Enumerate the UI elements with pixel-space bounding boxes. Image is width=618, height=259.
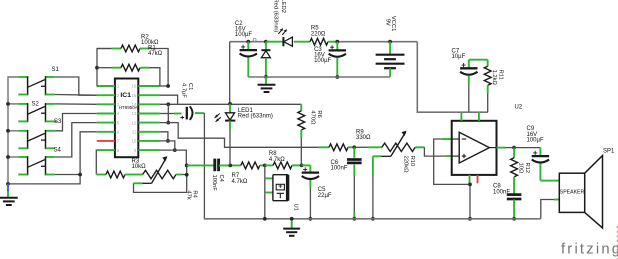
svg-text:100nF: 100nF xyxy=(331,166,348,172)
svg-text:10: 10 xyxy=(132,139,137,144)
svg-text:U2: U2 xyxy=(515,105,523,111)
junction R1-R2 left xyxy=(95,66,99,70)
svg-text:47kΩ: 47kΩ xyxy=(148,51,163,57)
svg-text:R4: R4 xyxy=(192,190,198,198)
resistor R1 xyxy=(97,67,112,69)
junction pin12 xyxy=(166,121,170,125)
capacitor C5 xyxy=(302,171,319,173)
resistor R6 xyxy=(300,104,302,111)
junction rail-S4 xyxy=(6,155,10,159)
svg-text:S2: S2 xyxy=(32,101,40,107)
junction S4bottom-pin6 xyxy=(78,173,82,177)
wire pot wiper loop xyxy=(134,176,187,193)
junction pin9 xyxy=(173,148,177,152)
junction LED1 anode xyxy=(228,102,232,106)
svg-text:4.7kΩ: 4.7kΩ xyxy=(269,157,285,163)
wire pin9 to pot junction xyxy=(160,150,186,165)
svg-text:470Ω: 470Ω xyxy=(310,110,316,125)
junction R10 rail xyxy=(371,217,375,221)
junction rail-ground xyxy=(6,182,10,186)
junction pin14 xyxy=(166,102,170,106)
wire S2 to IC pin3 xyxy=(55,103,97,105)
wire left ground rail xyxy=(8,77,18,184)
resistor R12 xyxy=(513,148,515,158)
junction R9-C6 xyxy=(352,145,356,149)
junction C5 rail xyxy=(309,217,313,221)
wire S2 bottom stub xyxy=(55,120,57,122)
wire S3 to IC pin4 xyxy=(55,114,97,131)
capacitor C2 xyxy=(247,42,249,50)
capacitor C8 xyxy=(513,182,515,194)
wire pin13 to C1 xyxy=(160,113,174,115)
resistor R8 xyxy=(265,164,273,166)
resistor R3 xyxy=(96,174,106,176)
label anchor circle xyxy=(253,38,256,41)
wire pin11 dogleg xyxy=(160,132,168,141)
junction LED1 cathode xyxy=(228,164,232,168)
ground GND1 lead xyxy=(7,184,9,192)
ground GND2 xyxy=(265,77,267,85)
svg-text:12: 12 xyxy=(132,120,137,125)
wire C7-R11 top xyxy=(469,59,488,61)
wire to C4 xyxy=(187,164,215,166)
junction diode gnd xyxy=(264,75,268,79)
svg-text:100µF: 100µF xyxy=(527,137,544,143)
LED D LED2 xyxy=(266,41,284,43)
svg-text:10kΩ: 10kΩ xyxy=(132,164,147,170)
wire pot right to junctions xyxy=(183,174,187,176)
switch S2 xyxy=(18,103,27,105)
op-amp U2 power stubs xyxy=(460,113,462,121)
svg-text:1.2kΩ: 1.2kΩ xyxy=(491,70,497,86)
wire S1 to IC pin2 xyxy=(55,77,97,95)
capacitor C7 xyxy=(468,60,470,69)
wire S4 to IC pin5 xyxy=(55,123,97,157)
svg-text:S1: S1 xyxy=(52,67,60,73)
resistor R9 xyxy=(319,146,329,148)
svg-text:S4: S4 xyxy=(54,148,62,154)
switch S4 xyxy=(18,156,27,158)
wire pin8 down to R3 row xyxy=(95,150,98,174)
junction diode top xyxy=(264,40,268,44)
svg-text:220kΩ: 220kΩ xyxy=(403,156,409,174)
wire out to C9 xyxy=(514,147,540,149)
svg-text:U1: U1 xyxy=(293,204,299,211)
resistor R2 xyxy=(97,48,112,50)
wire C5 to bottom rail xyxy=(309,180,311,189)
ground GND1 xyxy=(0,197,18,199)
microphone U1 body xyxy=(273,175,288,201)
junction C3 bottom xyxy=(335,75,339,79)
junction R8-R6-C5 xyxy=(300,164,304,168)
svg-text:C4: C4 xyxy=(218,175,224,183)
wire to op-amp in+ xyxy=(424,147,444,156)
potentiometer R4 pot xyxy=(132,174,143,176)
junction rail-S3 xyxy=(6,129,10,133)
junction mic rail xyxy=(263,217,267,221)
wire R10 wiper to rail xyxy=(372,156,374,175)
speaker SP1 xyxy=(559,173,584,212)
wire pin6 to ground row xyxy=(8,132,97,184)
wire pin14 row to R6 xyxy=(160,103,301,105)
wire R2 right to pin16 xyxy=(150,49,169,87)
diode D1 xyxy=(265,42,267,51)
svg-text:IC1: IC1 xyxy=(120,92,131,99)
svg-text:R10: R10 xyxy=(409,156,415,167)
wire VCC corner down to LED1 xyxy=(229,42,231,104)
wire C1 right down to bottom rail xyxy=(195,112,205,114)
resistor R11 xyxy=(487,60,489,67)
junction battery top xyxy=(388,40,392,44)
LED D LED1 xyxy=(229,104,231,113)
wire pin16 row xyxy=(160,85,168,87)
wire R2 left to pin1 xyxy=(97,49,111,87)
wire R6/R8 node to C5 xyxy=(302,164,311,166)
svg-text:SP1: SP1 xyxy=(603,148,615,154)
capacitor C6 xyxy=(353,147,355,158)
svg-text:4.7µF: 4.7µF xyxy=(181,83,187,98)
wire pin15 dogleg xyxy=(160,95,178,104)
junction op-amp gnd rail xyxy=(468,217,472,221)
wire R1 right to pin16 xyxy=(150,68,160,86)
junction C8 rail xyxy=(512,217,516,221)
wire VCC rail xyxy=(230,41,249,43)
wire pin12 chain to R9 xyxy=(160,123,319,148)
wire speaker bottom xyxy=(554,199,559,201)
wire S1 bottom to IC pin2 xyxy=(55,94,97,97)
junction gnd3 rail xyxy=(290,217,294,221)
op-amp U2 xyxy=(452,121,497,175)
svg-text:330Ω: 330Ω xyxy=(356,135,371,141)
svg-text:Red (633nm): Red (633nm) xyxy=(238,114,273,120)
svg-text:15: 15 xyxy=(132,93,137,98)
svg-text:C1: C1 xyxy=(187,83,193,90)
svg-text:10µF: 10µF xyxy=(452,54,466,60)
svg-text:9V: 9V xyxy=(384,19,390,26)
svg-text:100µF: 100µF xyxy=(235,32,252,38)
capacitor C3 xyxy=(336,42,338,51)
junction pot B xyxy=(185,173,189,177)
IC pins stubs xyxy=(97,85,115,87)
wire pin10 dogleg xyxy=(160,141,175,150)
svg-text:22µF: 22µF xyxy=(318,193,332,199)
svg-text:100nF: 100nF xyxy=(211,175,217,192)
svg-text:R12: R12 xyxy=(524,163,530,174)
junction C6 rail xyxy=(352,217,356,221)
svg-text:4.7kΩ: 4.7kΩ xyxy=(232,179,248,185)
wire bottom rail xyxy=(204,218,540,220)
junction rail-S2 xyxy=(6,102,10,106)
wire S4 bottom to pin6 line xyxy=(55,174,80,176)
svg-text:fritzing: fritzing xyxy=(561,242,618,258)
capacitor C4 xyxy=(213,159,216,172)
page edge artifact xyxy=(616,226,618,259)
junction op-amp gnd xyxy=(468,183,472,187)
switch S3 xyxy=(18,130,27,132)
svg-text:R11: R11 xyxy=(497,70,503,80)
capacitor C9 xyxy=(539,148,541,156)
resistor R5 xyxy=(310,38,328,45)
junction C3 top xyxy=(335,40,339,44)
svg-text:LED2: LED2 xyxy=(280,0,286,13)
wire op-amp in- feedback xyxy=(434,139,470,184)
potentiometer R10 xyxy=(368,146,382,148)
svg-text:SPEAKER: SPEAKER xyxy=(560,189,585,195)
IC U1 HT8950A body xyxy=(115,79,138,158)
svg-text:100µF: 100µF xyxy=(314,58,331,64)
wire C9 to speaker xyxy=(540,180,554,182)
capacitor C1 xyxy=(186,107,188,120)
svg-text:11: 11 xyxy=(132,130,137,135)
wire middle rail xyxy=(248,76,390,78)
junction out xyxy=(512,146,516,150)
junction pot A xyxy=(185,164,189,168)
svg-text:13: 13 xyxy=(132,111,137,116)
svg-text:100nF: 100nF xyxy=(493,189,510,195)
battery VCC1 xyxy=(389,42,391,55)
junction pin16 xyxy=(166,84,170,88)
svg-text:220Ω: 220Ω xyxy=(311,31,326,37)
switch S1 xyxy=(18,76,27,78)
wire mic feed xyxy=(264,165,266,218)
svg-text:R6: R6 xyxy=(316,110,322,117)
junction pin10 xyxy=(166,139,170,143)
svg-text:16: 16 xyxy=(132,84,137,89)
wire op-amp out xyxy=(497,147,506,149)
ground GND3 xyxy=(291,219,293,229)
resistor R7 xyxy=(241,162,260,169)
wire C4 to R7 xyxy=(219,164,241,166)
wire battery corner down xyxy=(417,42,488,113)
wire op-amp gnd down xyxy=(469,184,471,218)
wire R9 to R10 xyxy=(354,146,368,148)
junction C2 top xyxy=(246,40,250,44)
svg-text:Red (633nm): Red (633nm) xyxy=(273,0,279,32)
wire pin14 junction down to pin12 row xyxy=(167,104,169,122)
svg-text:HT8950A: HT8950A xyxy=(119,105,138,110)
svg-text:10Ω: 10Ω xyxy=(518,163,524,174)
junction R7-R8 xyxy=(263,164,267,168)
microphone U1 pins xyxy=(265,177,273,179)
